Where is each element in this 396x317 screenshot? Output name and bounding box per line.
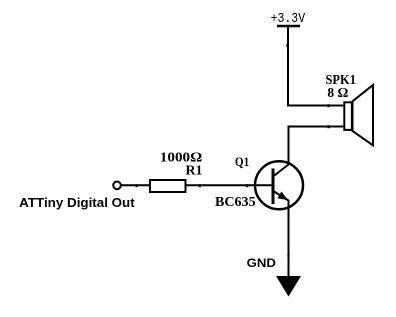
svg-text:GND: GND bbox=[247, 256, 277, 270]
svg-text:+3.3V: +3.3V bbox=[271, 11, 306, 27]
svg-text:BC635: BC635 bbox=[215, 194, 256, 209]
svg-text:8 Ω: 8 Ω bbox=[327, 85, 348, 100]
svg-text:Q1: Q1 bbox=[235, 155, 249, 169]
svg-text:R1: R1 bbox=[186, 164, 203, 179]
svg-text:ATTiny Digital Out: ATTiny Digital Out bbox=[19, 195, 135, 210]
